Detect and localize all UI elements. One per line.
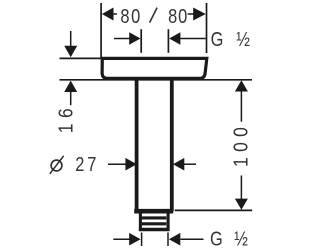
svg-text:100: 100 <box>230 122 253 167</box>
svg-text:16: 16 <box>55 103 78 133</box>
